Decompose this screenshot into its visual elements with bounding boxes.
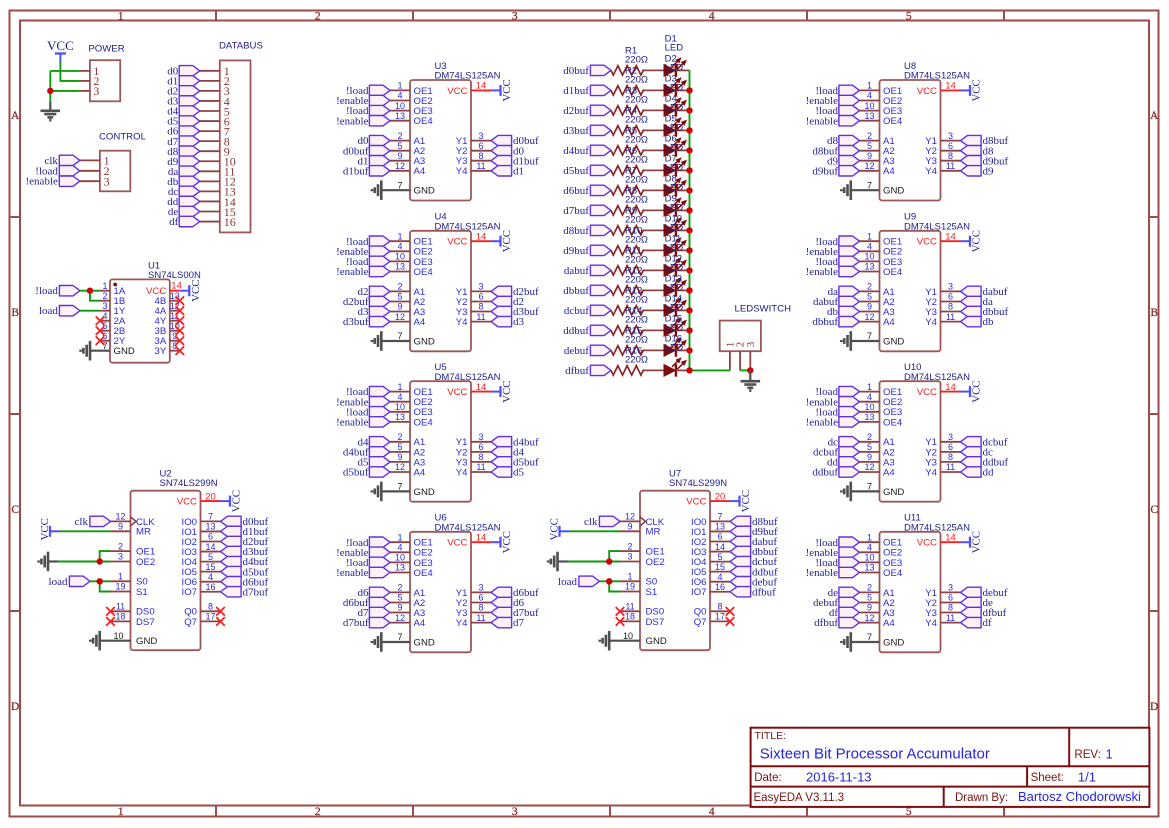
svg-text:8: 8 bbox=[478, 151, 483, 161]
svg-text:DATABUS: DATABUS bbox=[219, 41, 263, 52]
svg-text:1: 1 bbox=[118, 572, 123, 582]
net flag dbbuf bbox=[812, 316, 859, 328]
svg-text:13: 13 bbox=[205, 522, 215, 532]
svg-text:POWER: POWER bbox=[88, 43, 124, 54]
net flag dcbuf bbox=[564, 305, 611, 317]
svg-text:IO7: IO7 bbox=[182, 587, 197, 598]
svg-text:LEDSWITCH: LEDSWITCH bbox=[735, 304, 792, 315]
wire LED to bus bbox=[676, 129, 690, 131]
net flag da bbox=[961, 296, 994, 308]
connector LEDSWITCH bbox=[720, 304, 791, 371]
svg-text:8: 8 bbox=[717, 602, 722, 612]
IC U3 DM74LS125AN bbox=[390, 61, 501, 201]
svg-text:4: 4 bbox=[102, 311, 107, 321]
net flag d4 bbox=[358, 436, 391, 448]
svg-text:!enable: !enable bbox=[26, 176, 58, 188]
net flag clk bbox=[584, 516, 620, 528]
svg-text:3: 3 bbox=[102, 301, 107, 311]
resistor R2 220 bbox=[611, 65, 648, 95]
net flag d0buf bbox=[221, 516, 269, 528]
wire LED to bus bbox=[676, 349, 690, 351]
net flag d2buf bbox=[491, 286, 539, 298]
svg-text:9: 9 bbox=[118, 522, 123, 532]
svg-text:4: 4 bbox=[397, 91, 402, 101]
svg-text:1: 1 bbox=[867, 532, 872, 542]
svg-text:4: 4 bbox=[717, 572, 722, 582]
svg-text:A4: A4 bbox=[883, 317, 895, 328]
svg-text:VCC: VCC bbox=[177, 497, 197, 508]
net flag db bbox=[961, 316, 995, 328]
net flag d0buf bbox=[491, 135, 539, 147]
svg-text:!enable: !enable bbox=[336, 266, 368, 278]
svg-text:ddbuf: ddbuf bbox=[563, 325, 589, 337]
net flag d1 bbox=[491, 165, 524, 177]
ground bbox=[741, 370, 761, 390]
svg-text:220Ω: 220Ω bbox=[625, 314, 648, 325]
wire LED to bus bbox=[676, 149, 690, 151]
net flag df bbox=[829, 607, 860, 619]
svg-text:VCC: VCC bbox=[917, 237, 937, 248]
net flag clk bbox=[75, 516, 111, 528]
svg-text:8: 8 bbox=[948, 302, 953, 312]
svg-text:Date:: Date: bbox=[754, 772, 782, 784]
net flag !enable bbox=[336, 396, 390, 408]
net flag dabuf bbox=[564, 265, 611, 277]
net flag d5buf bbox=[221, 566, 269, 578]
net flag d7 bbox=[491, 617, 525, 629]
svg-text:8: 8 bbox=[948, 603, 953, 613]
svg-text:3: 3 bbox=[948, 432, 953, 442]
net flag d6buf bbox=[491, 587, 539, 599]
resistor R4 220 bbox=[611, 105, 648, 135]
svg-text:12: 12 bbox=[395, 613, 405, 623]
LED D3 bbox=[664, 74, 686, 117]
U7 ground pin10 bbox=[600, 631, 640, 651]
junction bbox=[686, 327, 692, 333]
no-connects U1 left bbox=[96, 316, 105, 345]
wire resistor to LED bbox=[645, 149, 665, 151]
resistor R5 220 bbox=[611, 125, 648, 155]
net flag debuf bbox=[813, 597, 860, 609]
net flag d3 bbox=[491, 316, 525, 328]
wire VCC to pin1/pin2 bbox=[50, 62, 80, 101]
svg-text:8: 8 bbox=[478, 603, 483, 613]
svg-text:13: 13 bbox=[395, 563, 405, 573]
resistor R16 220 bbox=[611, 345, 648, 375]
resistor R9 220 bbox=[611, 205, 648, 235]
net flag d9buf bbox=[563, 245, 611, 257]
svg-text:2: 2 bbox=[118, 541, 123, 551]
svg-text:2: 2 bbox=[397, 432, 402, 442]
net flag !enable bbox=[806, 396, 860, 408]
U5 ground bbox=[372, 482, 410, 502]
net flag dabuf bbox=[961, 286, 1008, 298]
svg-text:A4: A4 bbox=[414, 467, 426, 478]
net flag !load bbox=[815, 406, 859, 418]
net flag !load bbox=[815, 236, 859, 248]
LED D2 bbox=[664, 54, 686, 97]
svg-text:dcbuf: dcbuf bbox=[564, 305, 589, 317]
svg-text:4: 4 bbox=[709, 806, 715, 818]
svg-text:5: 5 bbox=[208, 552, 213, 562]
svg-text:7: 7 bbox=[717, 512, 722, 522]
svg-text:OE2: OE2 bbox=[136, 557, 155, 568]
svg-text:2: 2 bbox=[867, 282, 872, 292]
svg-text:12: 12 bbox=[864, 161, 874, 171]
LED D1 bbox=[664, 34, 686, 77]
net flag d8buf bbox=[563, 225, 611, 237]
svg-text:d6buf: d6buf bbox=[563, 185, 589, 197]
svg-text:2: 2 bbox=[397, 583, 402, 593]
net flag !enable bbox=[806, 95, 860, 107]
svg-text:3: 3 bbox=[93, 84, 99, 98]
svg-text:d9buf: d9buf bbox=[812, 165, 838, 177]
IC U6 DM74LS125AN bbox=[390, 513, 501, 653]
U7 VCC symbol bbox=[730, 490, 752, 512]
svg-text:dbbuf: dbbuf bbox=[812, 316, 838, 328]
net flag !load bbox=[346, 256, 390, 268]
net flag dbbuf bbox=[563, 285, 611, 297]
svg-text:LED: LED bbox=[665, 203, 684, 214]
net flag d9buf bbox=[812, 165, 859, 177]
junction bbox=[686, 147, 692, 153]
svg-text:11: 11 bbox=[946, 161, 955, 171]
svg-text:9: 9 bbox=[397, 603, 402, 613]
svg-text:1: 1 bbox=[397, 231, 402, 241]
svg-text:1: 1 bbox=[1106, 746, 1113, 761]
svg-text:Y4: Y4 bbox=[925, 618, 937, 629]
net flag load bbox=[558, 576, 599, 588]
net flag d7buf bbox=[343, 617, 390, 629]
svg-text:3: 3 bbox=[948, 131, 953, 141]
svg-text:2: 2 bbox=[315, 806, 321, 818]
svg-text:DM74LS125AN: DM74LS125AN bbox=[435, 372, 501, 383]
net flag d0 bbox=[167, 65, 200, 77]
svg-text:10: 10 bbox=[623, 631, 633, 641]
junction bbox=[97, 578, 103, 584]
svg-text:220Ω: 220Ω bbox=[625, 334, 648, 345]
junction bbox=[686, 127, 692, 133]
net flag ddbuf bbox=[563, 325, 611, 337]
net flag d1buf bbox=[221, 526, 269, 538]
svg-text:11: 11 bbox=[625, 602, 634, 612]
svg-text:13: 13 bbox=[395, 412, 405, 422]
net flag dbbuf bbox=[961, 306, 1009, 318]
U4 ground bbox=[372, 331, 410, 351]
net flag !enable bbox=[336, 266, 390, 278]
net flag d2buf bbox=[221, 536, 269, 548]
svg-text:2: 2 bbox=[867, 432, 872, 442]
junction bbox=[686, 347, 692, 353]
junction bbox=[686, 367, 692, 373]
junction bbox=[686, 87, 692, 93]
svg-text:13: 13 bbox=[864, 412, 874, 422]
connector CONTROL bbox=[80, 131, 147, 191]
svg-text:LED: LED bbox=[665, 263, 684, 274]
svg-text:CONTROL: CONTROL bbox=[99, 131, 147, 142]
svg-text:2: 2 bbox=[397, 282, 402, 292]
net flag !load bbox=[815, 85, 859, 97]
svg-text:14: 14 bbox=[476, 231, 487, 242]
wire load to 1Y bbox=[80, 310, 100, 312]
wire resistor to LED bbox=[645, 289, 665, 291]
net flag d5buf bbox=[491, 457, 539, 469]
svg-text:!load: !load bbox=[35, 285, 58, 297]
svg-text:14: 14 bbox=[945, 81, 956, 92]
drawn by text bbox=[955, 789, 1141, 804]
svg-text:6: 6 bbox=[102, 331, 107, 341]
svg-text:VCC: VCC bbox=[686, 497, 706, 508]
wire load to S0/S1 bbox=[90, 581, 111, 591]
net flag !load bbox=[815, 256, 859, 268]
svg-text:S1: S1 bbox=[646, 587, 658, 598]
svg-text:6: 6 bbox=[948, 292, 953, 302]
net flag dfbuf bbox=[730, 586, 776, 598]
U3 ground bbox=[372, 180, 410, 200]
junction bbox=[97, 558, 103, 564]
resistor R1 220 bbox=[611, 45, 648, 75]
svg-text:1: 1 bbox=[397, 532, 402, 542]
svg-text:14: 14 bbox=[476, 532, 487, 543]
svg-text:12: 12 bbox=[395, 312, 405, 322]
svg-text:220Ω: 220Ω bbox=[625, 194, 648, 205]
junction bbox=[686, 227, 692, 233]
junction bbox=[87, 288, 93, 294]
svg-text:d7buf: d7buf bbox=[343, 617, 369, 629]
net flag de bbox=[168, 206, 200, 218]
svg-text:DM74LS125AN: DM74LS125AN bbox=[904, 71, 970, 82]
svg-text:3: 3 bbox=[745, 341, 757, 347]
U11 VCC symbol bbox=[961, 531, 983, 553]
svg-text:1/1: 1/1 bbox=[1078, 770, 1096, 785]
no-connects DS0/DS7 bbox=[106, 607, 115, 626]
net flag !enable bbox=[806, 115, 860, 127]
svg-text:5: 5 bbox=[397, 442, 402, 452]
LED D10 bbox=[664, 214, 686, 257]
net flag dfbuf bbox=[565, 365, 611, 377]
net flag d1 bbox=[358, 155, 391, 167]
junction bbox=[686, 167, 692, 173]
svg-text:A: A bbox=[11, 110, 20, 122]
IC U2 SN74LS299N bbox=[111, 469, 221, 651]
net flag !enable bbox=[336, 567, 390, 579]
svg-text:1: 1 bbox=[627, 572, 632, 582]
svg-text:OE4: OE4 bbox=[414, 116, 434, 127]
wire LED to bus bbox=[676, 289, 690, 291]
svg-text:9: 9 bbox=[867, 151, 872, 161]
net flag d3buf bbox=[491, 306, 539, 318]
svg-text:13: 13 bbox=[864, 563, 874, 573]
svg-text:15: 15 bbox=[715, 562, 725, 572]
net flag d9 bbox=[167, 156, 200, 168]
IC U7 SN74LS299N bbox=[620, 469, 730, 651]
U5 VCC symbol bbox=[491, 380, 513, 402]
svg-text:9: 9 bbox=[867, 603, 872, 613]
svg-text:VCC: VCC bbox=[146, 286, 166, 297]
net flag !enable bbox=[806, 567, 860, 579]
IC U10 DM74LS125AN bbox=[860, 362, 971, 502]
net flag debuf bbox=[564, 345, 611, 357]
svg-text:d1: d1 bbox=[513, 165, 524, 177]
net flag d4 bbox=[491, 447, 525, 459]
net flag d0 bbox=[491, 145, 525, 157]
svg-text:dabuf: dabuf bbox=[564, 265, 589, 277]
svg-text:DM74LS125AN: DM74LS125AN bbox=[904, 522, 970, 533]
svg-text:IO7: IO7 bbox=[691, 587, 706, 598]
wire VCC to MR bbox=[60, 530, 111, 532]
U8 VCC symbol bbox=[961, 79, 983, 101]
svg-text:12: 12 bbox=[625, 512, 635, 522]
wire resistor to LED bbox=[645, 209, 665, 211]
ground at OE2 bbox=[39, 552, 58, 572]
net flag df bbox=[961, 617, 993, 629]
svg-text:!enable: !enable bbox=[806, 115, 838, 127]
svg-text:18: 18 bbox=[625, 612, 635, 622]
svg-text:MR: MR bbox=[646, 527, 661, 538]
svg-text:6: 6 bbox=[948, 442, 953, 452]
svg-text:VCC: VCC bbox=[39, 518, 51, 540]
svg-text:5: 5 bbox=[397, 292, 402, 302]
svg-text:13: 13 bbox=[864, 262, 874, 272]
svg-text:5: 5 bbox=[867, 442, 872, 452]
net flag dbbuf bbox=[730, 546, 778, 558]
svg-text:d7buf: d7buf bbox=[563, 205, 589, 217]
svg-text:LED: LED bbox=[665, 143, 684, 154]
net flag !enable bbox=[336, 115, 390, 127]
svg-text:3: 3 bbox=[478, 583, 483, 593]
junction bbox=[686, 207, 692, 213]
wire LED to bus bbox=[676, 309, 690, 311]
svg-text:1: 1 bbox=[118, 11, 124, 23]
svg-text:7: 7 bbox=[397, 180, 402, 190]
svg-text:3: 3 bbox=[512, 11, 518, 23]
wire resistor to LED bbox=[645, 129, 665, 131]
resistor R3 220 bbox=[611, 85, 648, 115]
svg-text:19: 19 bbox=[625, 582, 635, 592]
svg-text:2: 2 bbox=[397, 131, 402, 141]
net flag dabuf bbox=[813, 296, 860, 308]
svg-text:Sixteen Bit Processor Accumula: Sixteen Bit Processor Accumulator bbox=[760, 746, 990, 763]
svg-text:DM74LS125AN: DM74LS125AN bbox=[435, 522, 501, 533]
svg-text:DS7: DS7 bbox=[136, 617, 155, 628]
net flag d8buf bbox=[961, 135, 1009, 147]
net flag !enable bbox=[26, 176, 80, 188]
net flag debuf bbox=[730, 576, 777, 588]
svg-text:8: 8 bbox=[478, 302, 483, 312]
svg-text:4: 4 bbox=[867, 242, 872, 252]
svg-text:6: 6 bbox=[208, 532, 213, 542]
LED D13 bbox=[664, 274, 686, 317]
svg-text:LED: LED bbox=[665, 83, 684, 94]
power flag VCC at MR bbox=[549, 518, 569, 540]
U9 VCC symbol bbox=[961, 230, 983, 252]
svg-text:5: 5 bbox=[397, 141, 402, 151]
svg-text:13: 13 bbox=[864, 111, 874, 121]
svg-text:A4: A4 bbox=[883, 467, 895, 478]
svg-text:10: 10 bbox=[395, 101, 405, 111]
svg-text:Y4: Y4 bbox=[925, 317, 937, 328]
svg-text:220Ω: 220Ω bbox=[625, 54, 648, 65]
resistor R10 220 bbox=[611, 225, 648, 255]
svg-text:A4: A4 bbox=[883, 618, 895, 629]
net flag !enable bbox=[806, 246, 860, 258]
svg-text:GND: GND bbox=[883, 336, 904, 347]
svg-text:LED: LED bbox=[665, 103, 684, 114]
svg-text:dfbuf: dfbuf bbox=[814, 617, 838, 629]
LED D14 bbox=[664, 294, 686, 337]
svg-text:7: 7 bbox=[397, 632, 402, 642]
net flag !load bbox=[815, 537, 859, 549]
net flag d9buf bbox=[961, 155, 1009, 167]
svg-text:10: 10 bbox=[864, 252, 874, 262]
svg-text:OE4: OE4 bbox=[883, 267, 903, 278]
LED D9 bbox=[664, 194, 686, 237]
wire resistor to LED bbox=[645, 329, 665, 331]
net flag dc bbox=[828, 436, 860, 448]
svg-text:load: load bbox=[39, 305, 58, 317]
IC U9 DM74LS125AN bbox=[860, 212, 971, 352]
svg-text:DM74LS125AN: DM74LS125AN bbox=[904, 221, 970, 232]
svg-text:11: 11 bbox=[476, 613, 485, 623]
svg-text:11: 11 bbox=[946, 312, 955, 322]
net flag d1buf bbox=[343, 165, 390, 177]
svg-text:GND: GND bbox=[414, 186, 435, 197]
svg-text:MR: MR bbox=[136, 527, 151, 538]
net flag d3buf bbox=[343, 316, 390, 328]
sheet text bbox=[1031, 770, 1096, 785]
svg-text:OE4: OE4 bbox=[414, 267, 434, 278]
U11 ground bbox=[841, 632, 879, 652]
junction bbox=[686, 307, 692, 313]
connector DATABUS bbox=[200, 41, 263, 233]
net flag !enable bbox=[336, 417, 390, 429]
resistor R7 220 bbox=[611, 165, 648, 195]
svg-text:LED: LED bbox=[665, 63, 684, 74]
svg-text:220Ω: 220Ω bbox=[625, 74, 648, 85]
svg-text:LED: LED bbox=[665, 303, 684, 314]
junction bbox=[686, 187, 692, 193]
wire resistor to LED bbox=[645, 349, 665, 351]
svg-text:GND: GND bbox=[883, 487, 904, 498]
net flag d0buf bbox=[563, 65, 611, 77]
wire LED to bus bbox=[676, 89, 690, 91]
wire resistor to LED bbox=[645, 229, 665, 231]
net flag !load bbox=[815, 557, 859, 569]
svg-text:9: 9 bbox=[627, 522, 632, 532]
net flag dd bbox=[827, 457, 860, 469]
svg-text:14: 14 bbox=[945, 532, 956, 543]
net flag d2 bbox=[167, 86, 200, 98]
net flag !load bbox=[346, 85, 390, 97]
svg-text:1: 1 bbox=[867, 81, 872, 91]
net flag d8 bbox=[961, 145, 995, 157]
title block bbox=[751, 728, 1150, 807]
svg-text:1: 1 bbox=[867, 382, 872, 392]
resistor R6 220 bbox=[611, 145, 648, 175]
net flag db bbox=[827, 306, 860, 318]
net flag dfbuf bbox=[961, 607, 1007, 619]
net flag d1buf bbox=[563, 85, 611, 97]
svg-text:10: 10 bbox=[864, 402, 874, 412]
svg-text:D: D bbox=[11, 701, 19, 713]
svg-text:10: 10 bbox=[395, 252, 405, 262]
svg-text:d3: d3 bbox=[513, 316, 525, 328]
net flag clk bbox=[44, 155, 79, 167]
wire pin2 to pin3 bbox=[740, 369, 750, 371]
svg-text:16: 16 bbox=[715, 582, 725, 592]
wire LED to bus bbox=[676, 209, 690, 211]
ground at OE2 bbox=[548, 552, 567, 572]
